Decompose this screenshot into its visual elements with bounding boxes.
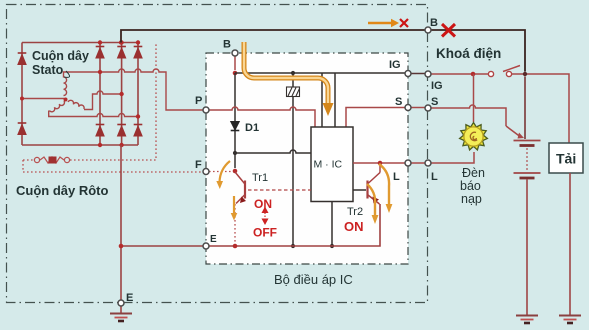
rotor slip ring left [34, 157, 39, 162]
battery cell 1 short plate [520, 144, 535, 147]
wire stator neutral to left column [22, 98, 64, 100]
rectifier left column wire [21, 43, 23, 146]
stator coil phase C (down-right coil) [68, 99, 85, 109]
wire L junction down to Tr2 collector [379, 163, 381, 173]
wire IG to switch [431, 73, 489, 75]
wire L between terminals [411, 162, 425, 164]
wire M-IC bottom to E [331, 202, 333, 247]
wire sense resistor vertical lower to E [292, 97, 294, 247]
regulator white area [206, 53, 408, 264]
rotor dotted wire left side [22, 160, 24, 172]
svg-text:Tr2: Tr2 [347, 206, 363, 218]
wire B+ dark from rectifier to battery [121, 30, 425, 43]
node battery feed junction [523, 72, 527, 76]
load box Tai [549, 143, 583, 173]
svg-text:E: E [210, 234, 217, 245]
terminal S case [425, 105, 431, 111]
wire B+ dark after terminal B [431, 30, 525, 72]
rectifier frame: top rail [22, 42, 138, 44]
resistor (hatched) [287, 87, 300, 97]
op-amp M-IC block [311, 127, 353, 202]
wire phase C to column2 (with hop) [84, 91, 122, 110]
node L junction [378, 161, 383, 166]
svg-text:báo: báo [460, 179, 481, 193]
wire lamp vertical top [473, 74, 475, 122]
wire black B tap into IC [321, 73, 323, 127]
wire M-IC right to terminal L [353, 162, 405, 164]
node D1 bottom junction [233, 151, 237, 155]
terminal E regulator [203, 243, 209, 249]
wire black to M-IC left (with hop) [235, 150, 311, 153]
wire black D1 branch vertical [234, 73, 236, 168]
node B junction [233, 71, 238, 76]
node lamp top junction [471, 72, 476, 77]
svg-text:E: E [126, 292, 133, 304]
orange arrow Tr2 flow b [367, 184, 375, 215]
rotor dotted wire to B+ (right, up) [70, 43, 156, 161]
svg-text:OFF: OFF [253, 226, 277, 240]
wire B terminal vertical (red) [234, 56, 236, 70]
svg-text:P: P [195, 95, 202, 107]
switch Khoa dien contact a [488, 71, 493, 76]
stator coil phase B (down-left coil) [49, 101, 65, 113]
svg-text:nạp: nạp [461, 192, 482, 206]
ON-OFF toggle arrow [262, 208, 267, 225]
diode column 2 wire [121, 43, 123, 146]
node F-Tr1 junction [233, 169, 238, 174]
diode D3-top [134, 47, 143, 59]
svg-text:B: B [430, 17, 438, 29]
terminal B regulator [232, 50, 238, 56]
rotor coil brush block [49, 157, 57, 164]
svg-text:Đèn: Đèn [462, 166, 485, 180]
wire black IG tap into IC [334, 73, 336, 127]
wire Tr2 base black [353, 189, 366, 191]
svg-text:B: B [223, 39, 231, 51]
orange arrow Tr1 flow b [233, 196, 235, 213]
svg-text:Cuộn dây: Cuộn dây [32, 49, 89, 63]
diode D1-bottom [96, 125, 105, 137]
diode column 3 wire [137, 43, 139, 146]
rotor dotted wire bottom to terminal F [23, 171, 203, 173]
diode D2-top [117, 47, 126, 59]
svg-text:Stato: Stato [32, 63, 64, 77]
stator coil phase A (vertical coil) [64, 77, 67, 96]
wire battery to ground [526, 180, 528, 316]
node M-IC to E junction [330, 244, 334, 248]
svg-text:IG: IG [389, 59, 401, 71]
alternator case border [7, 5, 428, 303]
X mark small (top) [400, 19, 408, 27]
rotor dotted wire top-left [23, 159, 34, 161]
diode D1-top [96, 47, 105, 59]
svg-text:D1: D1 [245, 122, 259, 134]
terminal IG case [425, 71, 431, 77]
wire phase A to column1 and P (with hops) [64, 69, 204, 110]
diode D-left-bottom [18, 123, 27, 135]
wire sense resistor vertical upper [292, 73, 294, 87]
transistor Q1 Tr1 [235, 172, 245, 204]
diode D3-bottom [134, 125, 143, 137]
terminal S regulator [405, 105, 411, 111]
switch blade [503, 66, 520, 72]
diode column 1 wire [99, 43, 101, 146]
svg-text:Tải: Tải [556, 151, 576, 167]
wire S line into IC [346, 108, 405, 128]
terminal L regulator [405, 160, 411, 166]
terminal IG regulator [405, 71, 411, 77]
battery dashed middle [526, 148, 528, 171]
svg-text:S: S [395, 96, 402, 108]
wire E line inside regulator to Tr2 emitter [209, 204, 380, 246]
battery cell 1 long plate [514, 140, 541, 142]
terminal B case [425, 27, 431, 33]
svg-text:IG: IG [431, 80, 443, 92]
diode D-left-top [18, 53, 27, 65]
terminal P [203, 107, 209, 113]
wire P line into IC (with hops) [209, 107, 315, 127]
node bottom rail junctions [98, 143, 124, 147]
rotor slip ring right [64, 157, 69, 162]
node phase junctions [20, 70, 140, 119]
node top rail junctions [98, 40, 140, 44]
svg-text:L: L [431, 171, 438, 183]
svg-text:L: L [393, 171, 400, 183]
wire phase B to column3 (with hops) [49, 111, 138, 117]
wire Tr1 emitter dotted to E [234, 204, 236, 243]
charge lamp [460, 123, 488, 150]
ground (E chassis) [110, 306, 132, 321]
switch Khoa dien contact b [506, 71, 511, 76]
wire S between terminals [411, 107, 425, 109]
wire S to charge relay blade [431, 105, 506, 126]
orange arrow Tr1 flow a [220, 161, 231, 182]
wire switch to load [512, 74, 569, 143]
wire battery feed down [524, 77, 526, 140]
svg-text:S: S [431, 96, 438, 108]
node Tr1 emitter to E junction [233, 244, 238, 249]
terminal E case [118, 300, 124, 306]
terminal L case [425, 160, 431, 166]
svg-text:M · IC: M · IC [314, 159, 343, 171]
svg-text:F: F [195, 159, 202, 171]
wire IG between terminals [411, 73, 425, 75]
node E junction [119, 244, 124, 249]
terminal F [203, 169, 209, 175]
wire load to ground [569, 173, 571, 315]
svg-text:ON: ON [344, 219, 364, 234]
wire Tr1 base dashed to M-IC [248, 189, 311, 191]
node sense resistor tap [291, 71, 295, 75]
node resistor to E junction [291, 244, 295, 248]
rotor coil zigzag [40, 157, 64, 163]
wire E vertical (rail to chassis) [120, 145, 122, 300]
battery cell 2 long plate [514, 172, 541, 174]
wire F dotted into regulator [209, 171, 232, 173]
wire lamp bottom to L [431, 152, 474, 163]
svg-text:ON: ON [254, 197, 272, 211]
wire black B bus to IG [235, 72, 405, 74]
transistor Q2 Tr2 [368, 173, 381, 205]
battery cell 2 short plate [520, 177, 535, 180]
pointer from Stato label to coil [64, 71, 70, 77]
blade S to battery [506, 126, 520, 137]
orange arrow blocked flow (top) [368, 22, 391, 25]
svg-text:Khoá điện: Khoá điện [436, 46, 501, 61]
orange arrow main B flow [244, 42, 328, 103]
svg-text:Bộ điều áp IC: Bộ điều áp IC [274, 272, 353, 287]
svg-text:Cuộn dây Rôto: Cuộn dây Rôto [16, 183, 108, 198]
rectifier bottom rail [22, 144, 138, 146]
ground (battery) [516, 316, 538, 324]
orange arrow Tr2 flow a [379, 164, 389, 204]
wire E horizontal to regulator [121, 245, 203, 247]
ground (load) [559, 316, 581, 324]
svg-text:Tr1: Tr1 [252, 172, 268, 184]
X mark large at B [442, 24, 455, 37]
diode D1 [231, 122, 240, 131]
regulator IC dashed box [206, 53, 408, 264]
diode D2-bottom [117, 125, 126, 137]
